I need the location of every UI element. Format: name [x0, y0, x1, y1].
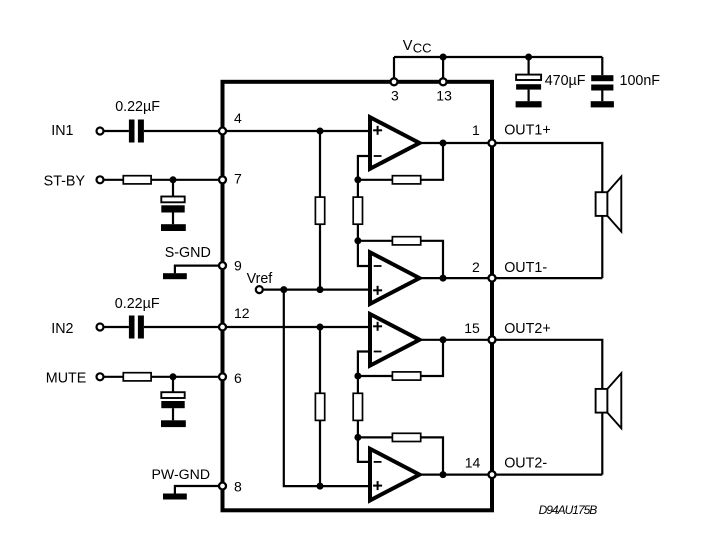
- svg-text:7: 7: [234, 171, 242, 187]
- wire pin12 to U1c plus input: [223, 326, 371, 328]
- resistor R2: [123, 373, 151, 381]
- op-amp U1b: [370, 252, 420, 304]
- resistor RC: [315, 393, 324, 420]
- svg-text:0.22µF: 0.22µF: [115, 296, 160, 312]
- wire C3 to pin12: [144, 326, 223, 328]
- node pin4/RA junction: [317, 128, 324, 135]
- resistor RF3: [392, 372, 420, 380]
- node U1b output junction: [440, 275, 447, 282]
- wire pin8 to PW-GND ground: [175, 486, 223, 494]
- svg-text:OUT1+: OUT1+: [504, 122, 550, 138]
- svg-text:IN1: IN1: [51, 123, 73, 139]
- pin 2: [489, 275, 496, 282]
- terminal Vref: [256, 286, 263, 293]
- wire U1b output: [420, 277, 493, 279]
- wire RF1 to U1a output: [421, 143, 443, 180]
- resistor R1: [123, 176, 151, 184]
- svg-text:100nF: 100nF: [620, 73, 661, 89]
- svg-text:OUT2+: OUT2+: [504, 321, 550, 337]
- resistor RA: [315, 197, 324, 224]
- pin 4: [219, 128, 226, 135]
- node ST-BY/C2 junction: [170, 176, 177, 183]
- wire RF1 left: [358, 179, 393, 181]
- ground C4: [161, 420, 186, 427]
- terminal IN1: [97, 128, 104, 135]
- capacitor C2: [161, 197, 184, 225]
- wire MUTE to R2: [103, 376, 123, 378]
- wire RF2 left: [358, 240, 393, 242]
- terminal IN2: [97, 324, 104, 331]
- wire ST-BY to R1: [103, 179, 123, 181]
- svg-text:1: 1: [472, 122, 480, 138]
- wire pin3 to VCC rail: [393, 57, 395, 82]
- wire C5 lead: [527, 57, 529, 75]
- wire U1b minus input: [358, 241, 370, 266]
- node VCC-pin13 junction: [440, 54, 447, 61]
- node Vref drop junction: [280, 286, 287, 293]
- pin 1: [489, 140, 496, 147]
- capacitor C5 470uF: [516, 75, 541, 102]
- capacitor C4: [161, 392, 184, 420]
- capacitor C1 0.22uF: [129, 120, 144, 143]
- wire RB lower: [357, 224, 359, 241]
- ground PW-GND: [163, 494, 187, 500]
- wire pin9 to S-GND ground: [175, 266, 223, 274]
- svg-text:D94AU175B: D94AU175B: [539, 503, 598, 517]
- node Vref/RA junction: [317, 286, 324, 293]
- node U1c output junction: [440, 336, 447, 343]
- wire Vref to U1d plus input: [320, 485, 370, 487]
- wire U1a output: [420, 142, 493, 144]
- wire IN2 to C3: [103, 326, 129, 328]
- svg-text:PW-GND: PW-GND: [152, 466, 210, 482]
- svg-text:15: 15: [464, 320, 480, 336]
- wire OUT2-: [492, 474, 602, 476]
- wire RF2 to U1b output: [421, 241, 443, 278]
- wire C6 lead: [601, 57, 603, 75]
- svg-text:4: 4: [234, 110, 242, 126]
- capacitor C3 0.22uF: [129, 316, 144, 339]
- node U1c feedback junction: [354, 373, 361, 380]
- wire U1d minus input: [358, 437, 370, 462]
- node U1b minus junction: [354, 237, 361, 244]
- wire U1c minus input: [358, 352, 370, 394]
- wire OUT1-: [492, 277, 602, 279]
- ground C5: [516, 101, 542, 107]
- svg-text:OUT2-: OUT2-: [504, 456, 547, 472]
- resistor RB: [353, 197, 362, 224]
- svg-text:MUTE: MUTE: [46, 371, 87, 387]
- svg-text:IN2: IN2: [51, 321, 73, 337]
- wire Vref vertical drop: [284, 290, 320, 487]
- wire RA upper: [319, 131, 321, 197]
- node Vref/RC junction: [317, 483, 324, 490]
- svg-text:2: 2: [472, 259, 480, 275]
- wire RC lower: [319, 420, 321, 486]
- svg-text:3: 3: [391, 88, 399, 104]
- node pin12/RC junction: [317, 324, 324, 331]
- op-amp U1d: [370, 449, 420, 501]
- op-amp U1c: [370, 314, 420, 366]
- wire pin4 to U1a plus input: [223, 130, 371, 132]
- IC U1 body: [223, 82, 493, 511]
- svg-text:9: 9: [234, 258, 242, 274]
- svg-text:12: 12: [234, 305, 250, 321]
- wire IN1 to C1: [103, 130, 129, 132]
- wire RF4 to U1d output: [421, 437, 443, 474]
- node U1a output junction: [440, 140, 447, 147]
- wire C2 lead: [172, 180, 174, 197]
- svg-text:Vref: Vref: [247, 271, 273, 287]
- node U1a feedback junction: [354, 176, 361, 183]
- svg-text:CC: CC: [413, 40, 432, 55]
- wire C1 to pin4: [144, 130, 223, 132]
- pin 3: [391, 78, 398, 85]
- svg-text:OUT1-: OUT1-: [504, 260, 547, 276]
- resistor RF1: [392, 176, 420, 184]
- wire C4 lead: [172, 377, 174, 392]
- wire R1 to pin7: [151, 179, 222, 181]
- pin 15: [489, 336, 496, 343]
- wire U1c output: [420, 339, 493, 341]
- op-amp U1a: [370, 117, 420, 169]
- ground C6: [591, 101, 614, 107]
- wire R2 to pin6: [151, 376, 222, 378]
- wire VCC rail: [394, 56, 602, 58]
- svg-text:6: 6: [234, 370, 242, 386]
- node U1d output junction: [440, 471, 447, 478]
- svg-text:V: V: [403, 38, 413, 54]
- node VCC-C5 junction: [525, 54, 532, 61]
- speaker LS2: [596, 373, 622, 428]
- wire RA lower: [319, 224, 321, 289]
- capacitor C6 100nF: [591, 75, 613, 101]
- svg-text:0.22µF: 0.22µF: [115, 99, 160, 115]
- svg-text:470µF: 470µF: [545, 73, 586, 89]
- wire U1d output: [420, 474, 493, 476]
- pin 8: [219, 483, 226, 490]
- node U1d minus junction: [354, 434, 361, 441]
- wire RD lower: [357, 420, 359, 437]
- wire RF3 left: [358, 375, 393, 377]
- pin 9: [219, 262, 226, 269]
- wire RF4 left: [358, 436, 393, 438]
- resistor RF4: [392, 433, 420, 441]
- ground C2: [161, 224, 186, 231]
- svg-text:ST-BY: ST-BY: [44, 173, 86, 189]
- wire RC upper: [319, 327, 321, 393]
- wire Vref to U1b plus input: [263, 289, 371, 291]
- pin 14: [489, 471, 496, 478]
- wire U1a minus input: [358, 156, 370, 197]
- wire RF3 to U1c output: [421, 340, 443, 376]
- node MUTE/C4 junction: [170, 373, 177, 380]
- svg-text:8: 8: [234, 478, 242, 494]
- wire pin13 to VCC rail: [442, 57, 444, 82]
- resistor RF2: [392, 237, 420, 245]
- speaker LS1: [596, 177, 622, 232]
- pin 13: [440, 78, 447, 85]
- svg-text:13: 13: [436, 88, 452, 104]
- ground S-GND: [163, 273, 187, 279]
- pin 7: [219, 176, 226, 183]
- resistor RD: [353, 393, 362, 420]
- terminal ST-BY: [97, 176, 104, 183]
- svg-text:14: 14: [465, 455, 481, 471]
- wire OUT2+: [492, 340, 602, 475]
- pin 12: [219, 324, 226, 331]
- svg-text:S-GND: S-GND: [165, 245, 211, 261]
- terminal MUTE: [97, 373, 104, 380]
- pin 6: [219, 373, 226, 380]
- wire OUT1+: [492, 143, 602, 278]
